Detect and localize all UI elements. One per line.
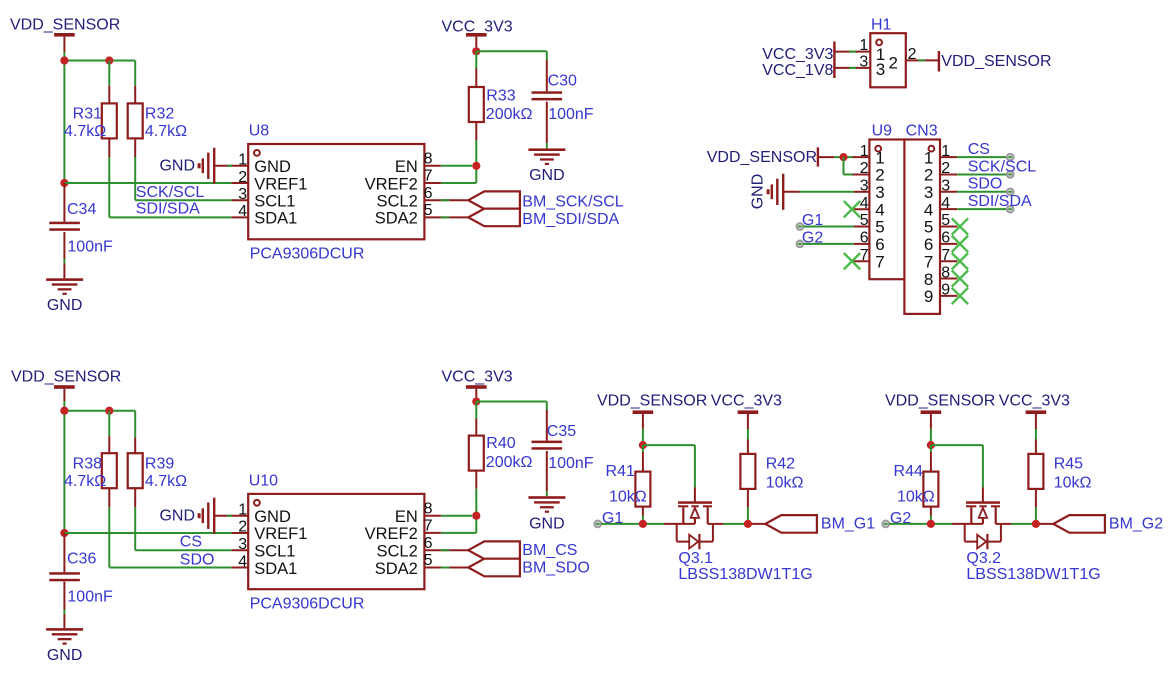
svg-text:4.7kΩ: 4.7kΩ: [145, 123, 187, 140]
svg-text:G1: G1: [802, 212, 823, 229]
svg-text:4.7kΩ: 4.7kΩ: [64, 123, 106, 140]
svg-text:7: 7: [924, 252, 933, 271]
svg-text:100nF: 100nF: [67, 239, 113, 256]
svg-text:BM_G1: BM_G1: [821, 515, 875, 532]
svg-text:Q3.2: Q3.2: [966, 550, 1001, 567]
svg-text:3: 3: [859, 54, 868, 71]
svg-text:3: 3: [924, 183, 933, 202]
svg-text:10kΩ: 10kΩ: [897, 489, 935, 506]
svg-text:PCA9306DCUR: PCA9306DCUR: [250, 596, 365, 613]
svg-text:R40: R40: [486, 435, 515, 452]
svg-text:SCL2: SCL2: [377, 543, 418, 561]
svg-text:EN: EN: [395, 508, 418, 526]
svg-text:VCC_3V3: VCC_3V3: [442, 369, 513, 386]
svg-text:SDI/SDA: SDI/SDA: [136, 201, 200, 218]
svg-text:SDA1: SDA1: [254, 210, 297, 228]
svg-text:VDD_SENSOR: VDD_SENSOR: [707, 149, 817, 166]
svg-text:1: 1: [924, 148, 933, 167]
svg-text:6: 6: [924, 235, 933, 254]
svg-text:C35: C35: [547, 423, 576, 440]
svg-text:10kΩ: 10kΩ: [1054, 475, 1092, 492]
svg-text:LBSS138DW1T1G: LBSS138DW1T1G: [966, 566, 1100, 583]
svg-text:R44: R44: [894, 463, 923, 480]
svg-text:5: 5: [924, 218, 933, 237]
svg-text:4.7kΩ: 4.7kΩ: [64, 473, 106, 490]
svg-text:GND: GND: [529, 167, 565, 184]
svg-text:EN: EN: [395, 158, 418, 176]
svg-text:BM_CS: BM_CS: [522, 542, 577, 559]
svg-text:GND: GND: [159, 507, 195, 524]
svg-text:R31: R31: [73, 106, 102, 123]
svg-text:SDO: SDO: [180, 551, 215, 568]
svg-text:1: 1: [875, 148, 884, 167]
svg-text:7: 7: [875, 252, 884, 271]
svg-text:5: 5: [875, 218, 884, 237]
svg-text:SCL1: SCL1: [254, 193, 295, 211]
svg-text:C34: C34: [67, 201, 96, 218]
svg-text:3: 3: [876, 60, 885, 79]
svg-text:SDO: SDO: [968, 176, 1003, 193]
svg-text:GND: GND: [47, 647, 83, 664]
svg-text:VDD_SENSOR: VDD_SENSOR: [941, 53, 1051, 70]
svg-text:SDA1: SDA1: [254, 560, 297, 578]
svg-text:4: 4: [238, 203, 247, 220]
svg-text:3: 3: [238, 186, 247, 203]
svg-text:Q3.1: Q3.1: [678, 550, 713, 567]
svg-text:C36: C36: [67, 551, 96, 568]
svg-text:PCA9306DCUR: PCA9306DCUR: [250, 246, 365, 263]
svg-text:2: 2: [908, 46, 917, 63]
svg-text:R45: R45: [1054, 456, 1083, 473]
svg-text:2: 2: [238, 169, 247, 186]
svg-text:3: 3: [875, 183, 884, 202]
svg-text:3: 3: [238, 536, 247, 553]
svg-text:VDD_SENSOR: VDD_SENSOR: [885, 393, 995, 410]
svg-text:R42: R42: [766, 456, 795, 473]
svg-text:SCK/SCL: SCK/SCL: [968, 158, 1037, 175]
svg-text:BM_SDO: BM_SDO: [522, 560, 590, 577]
svg-text:R32: R32: [145, 106, 174, 123]
svg-text:BM_SCK/SCL: BM_SCK/SCL: [522, 194, 623, 211]
svg-text:H1: H1: [871, 17, 892, 34]
svg-text:GND: GND: [47, 297, 83, 314]
svg-text:VREF1: VREF1: [254, 175, 307, 193]
svg-text:2: 2: [924, 166, 933, 185]
svg-text:BM_SDI/SDA: BM_SDI/SDA: [522, 211, 619, 228]
svg-text:10kΩ: 10kΩ: [766, 475, 804, 492]
svg-text:1: 1: [238, 152, 247, 169]
svg-text:VCC_1V8: VCC_1V8: [762, 62, 833, 79]
svg-text:GND: GND: [529, 516, 565, 533]
svg-text:10kΩ: 10kΩ: [609, 489, 647, 506]
svg-text:VCC_3V3: VCC_3V3: [999, 393, 1070, 410]
svg-text:2: 2: [888, 54, 897, 73]
svg-text:100nF: 100nF: [548, 106, 594, 123]
svg-text:VDD_SENSOR: VDD_SENSOR: [11, 369, 121, 386]
svg-text:SDA2: SDA2: [375, 560, 418, 578]
svg-text:1: 1: [859, 37, 868, 54]
svg-text:GND: GND: [254, 158, 291, 176]
svg-text:9: 9: [924, 287, 933, 306]
svg-text:VDD_SENSOR: VDD_SENSOR: [10, 17, 120, 34]
svg-text:200kΩ: 200kΩ: [486, 106, 533, 123]
svg-text:GND: GND: [254, 508, 291, 526]
svg-text:4.7kΩ: 4.7kΩ: [145, 473, 187, 490]
svg-text:C30: C30: [548, 73, 577, 90]
svg-text:U9: U9: [872, 123, 893, 140]
svg-text:VREF1: VREF1: [254, 525, 307, 543]
svg-text:LBSS138DW1T1G: LBSS138DW1T1G: [678, 566, 812, 583]
svg-text:100nF: 100nF: [67, 589, 113, 606]
svg-text:4: 4: [924, 200, 933, 219]
svg-text:R38: R38: [73, 456, 102, 473]
svg-text:8: 8: [924, 270, 933, 289]
svg-text:CS: CS: [180, 533, 202, 550]
svg-text:VCC_3V3: VCC_3V3: [711, 393, 782, 410]
svg-text:R41: R41: [606, 463, 635, 480]
svg-text:VDD_SENSOR: VDD_SENSOR: [597, 393, 707, 410]
svg-text:4: 4: [238, 553, 247, 570]
svg-text:VREF2: VREF2: [365, 175, 418, 193]
svg-text:VCC_3V3: VCC_3V3: [762, 46, 833, 63]
svg-text:R33: R33: [486, 88, 515, 105]
svg-text:SCK/SCL: SCK/SCL: [136, 184, 205, 201]
svg-text:SDA2: SDA2: [375, 210, 418, 228]
svg-text:U8: U8: [249, 123, 270, 140]
svg-text:2: 2: [238, 519, 247, 536]
svg-text:SDI/SDA: SDI/SDA: [968, 193, 1032, 210]
svg-text:G2: G2: [802, 230, 823, 247]
svg-text:SCL2: SCL2: [377, 193, 418, 211]
svg-text:CS: CS: [968, 141, 990, 158]
svg-text:200kΩ: 200kΩ: [486, 454, 533, 471]
svg-text:2: 2: [875, 166, 884, 185]
svg-text:6: 6: [875, 235, 884, 254]
svg-text:R39: R39: [145, 456, 174, 473]
svg-text:CN3: CN3: [906, 123, 938, 140]
svg-text:U10: U10: [249, 473, 278, 490]
svg-text:GND: GND: [750, 174, 767, 210]
svg-text:4: 4: [875, 200, 884, 219]
svg-text:100nF: 100nF: [548, 455, 594, 472]
svg-text:GND: GND: [159, 158, 195, 175]
svg-text:VREF2: VREF2: [365, 525, 418, 543]
svg-text:BM_G2: BM_G2: [1109, 515, 1163, 532]
svg-text:SCL1: SCL1: [254, 543, 295, 561]
svg-text:1: 1: [238, 502, 247, 519]
